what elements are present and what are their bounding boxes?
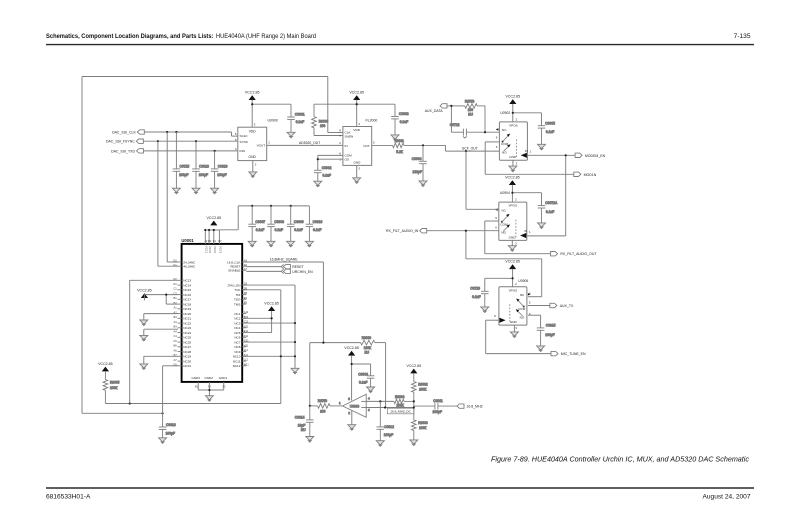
wire U0900 VDD supply	[251, 100, 291, 127]
svg-text:B3: B3	[174, 315, 178, 319]
svg-text:VCC2.85: VCC2.85	[349, 90, 364, 94]
port AUX_TX	[550, 303, 557, 307]
svg-text:2: 2	[348, 411, 350, 415]
wire U0906 COM to AUX_TX	[528, 305, 550, 307]
capacitor C0911 (series)	[414, 399, 457, 414]
wire U0001 NC24 to ground	[144, 329, 178, 335]
svg-text:U0903: U0903	[350, 404, 360, 408]
svg-text:B1: B1	[174, 296, 178, 300]
svg-text:1: 1	[529, 230, 531, 234]
power VCC2.85 for U0903	[344, 346, 359, 356]
ground for C0910	[305, 241, 313, 247]
svg-text:46_MHZ: 46_MHZ	[183, 265, 195, 269]
ground for C0729	[481, 307, 489, 313]
U0001 right pin stubs	[242, 262, 246, 366]
svg-text:1: 1	[339, 401, 341, 405]
svg-text:NC: NC	[501, 208, 506, 212]
svg-text:3: 3	[515, 242, 517, 246]
svg-text:TCK: TCK	[234, 288, 240, 292]
svg-text:NC: NC	[502, 128, 507, 132]
svg-text:U0900: U0900	[268, 118, 278, 122]
ground for FL2000	[353, 178, 361, 184]
wire U0001 VCC pins	[204, 229, 219, 244]
svg-text:100K: 100K	[419, 426, 427, 430]
wire SCF_OUT	[446, 145, 500, 152]
capacitor C0914 (NU)	[295, 406, 314, 437]
capacitor C0915	[537, 323, 556, 346]
svg-text:R0759: R0759	[318, 399, 328, 403]
svg-text:A7: A7	[174, 358, 178, 362]
svg-text:R0903: R0903	[418, 421, 428, 425]
svg-text:NC3: NC3	[234, 321, 240, 325]
wire U0906 ground pin	[513, 325, 515, 332]
svg-text:GND: GND	[249, 155, 257, 159]
svg-text:5: 5	[235, 132, 237, 136]
svg-text:16.8_MHZ: 16.8_MHZ	[466, 405, 483, 409]
svg-text:NC4: NC4	[234, 326, 240, 330]
junction R0759 input	[309, 405, 311, 407]
svg-text:GND: GND	[510, 320, 518, 324]
svg-text:3: 3	[516, 161, 518, 165]
wire U0902 ground pin	[512, 160, 514, 166]
svg-text:C0972A: C0972A	[545, 201, 558, 205]
ground at U0001 NC20	[140, 320, 148, 326]
svg-text:NC22: NC22	[183, 321, 191, 325]
svg-text:AUX_DATA: AUX_DATA	[425, 109, 444, 113]
svg-text:Schematics, Component Location: Schematics, Component Location Diagrams,…	[46, 33, 316, 40]
svg-text:VPOS: VPOS	[509, 288, 518, 292]
svg-text:4: 4	[368, 397, 370, 401]
svg-text:0.1uF: 0.1uF	[400, 120, 408, 124]
svg-text:VDD: VDD	[249, 130, 257, 134]
wire R0905 rail	[105, 402, 280, 404]
svg-text:NC2: NC2	[234, 317, 240, 321]
svg-text:D8: D8	[244, 291, 248, 295]
wire MODEM_EN	[527, 154, 575, 236]
svg-text:C0909: C0909	[294, 220, 304, 224]
capacitor C0972A	[538, 201, 558, 223]
svg-text:C0905: C0905	[545, 121, 555, 125]
svg-text:C0904: C0904	[412, 157, 422, 161]
resistor R0758 (NU)	[465, 99, 485, 132]
svg-text:NC28: NC28	[183, 350, 191, 354]
ground for C0901	[287, 132, 295, 138]
svg-text:G2: G2	[173, 259, 177, 263]
op-amp U0903	[339, 394, 370, 417]
U0001 VCC pin names (rotated)	[204, 246, 222, 253]
svg-text:100pF: 100pF	[166, 431, 175, 435]
svg-text:0.1uF: 0.1uF	[472, 295, 480, 299]
svg-text:VCC2.85: VCC2.85	[506, 94, 521, 98]
wire U0904 ground pin	[511, 240, 513, 245]
svg-text:0.1uF: 0.1uF	[256, 228, 264, 232]
svg-text:VPOS: VPOS	[508, 204, 517, 208]
svg-text:U0906: U0906	[518, 279, 528, 283]
svg-text:NC12: NC12	[233, 364, 241, 368]
svg-text:C4: C4	[173, 334, 177, 338]
svg-text:C0910: C0910	[313, 220, 323, 224]
svg-text:5: 5	[348, 397, 350, 401]
ground for U0902	[509, 166, 517, 172]
header rule	[46, 44, 754, 46]
svg-text:C1: C1	[173, 287, 177, 291]
filter FL2000 box	[343, 127, 372, 166]
svg-text:NO: NO	[501, 231, 506, 235]
ground for C0902	[314, 181, 322, 187]
wire AUX_DATA node	[447, 105, 465, 132]
svg-text:A1: A1	[174, 306, 178, 310]
U0001 left pin designators	[173, 259, 177, 367]
wire VCC to U0001 NC2/NC5	[242, 311, 273, 333]
svg-text:C0903: C0903	[399, 112, 409, 116]
svg-text:100K: 100K	[419, 387, 427, 391]
capacitor C0903	[391, 112, 409, 135]
wire U0001 NC30 to ground	[144, 356, 178, 364]
port AUX_DATA	[440, 104, 447, 108]
power VCC2.85 for U0001 top	[207, 216, 222, 226]
capacitor C0910	[306, 206, 323, 241]
wire DAC_SSI_FSYNC	[143, 140, 238, 142]
wire 16.8MHz clock loop (border)	[82, 77, 343, 415]
svg-text:August 24, 2007: August 24, 2007	[702, 494, 750, 501]
ground for C0912	[376, 441, 384, 447]
svg-text:GND: GND	[509, 155, 517, 159]
resistor R0906	[312, 104, 343, 135]
svg-text:GND2: GND2	[205, 376, 214, 380]
svg-text:5: 5	[529, 301, 531, 305]
svg-text:NC18: NC18	[183, 302, 191, 306]
svg-text:A4: A4	[174, 329, 178, 333]
svg-text:100pF: 100pF	[179, 173, 188, 177]
wire URCHIN_EN	[246, 270, 281, 272]
svg-text:JTAG_EN: JTAG_EN	[227, 283, 240, 287]
power VCC2.85 right of U0001	[264, 301, 279, 311]
svg-text:1: 1	[268, 141, 270, 145]
port DAC_SSI_CLK	[137, 130, 144, 134]
wire FL2000 VDD rail	[314, 100, 395, 127]
svg-text:NC: NC	[520, 293, 525, 297]
svg-text:2: 2	[515, 198, 517, 202]
svg-text:SYNC: SYNC	[240, 140, 249, 144]
svg-text:NC6: NC6	[234, 336, 240, 340]
IC U0001 box	[182, 244, 243, 382]
wire NC13 pulldown	[130, 280, 178, 403]
svg-text:C0918: C0918	[199, 164, 209, 168]
capacitor C0904	[412, 145, 427, 181]
svg-text:2: 2	[339, 141, 341, 145]
svg-text:B6: B6	[174, 344, 178, 348]
svg-text:2: 2	[255, 163, 257, 167]
port URCHIN_EN	[283, 269, 290, 273]
svg-text:C5: C5	[173, 339, 177, 343]
wire RX_FILT_AUDIO_IN	[427, 230, 542, 297]
svg-text:VCC2.85: VCC2.85	[344, 346, 359, 350]
U0001 bottom GND pin labels	[192, 376, 228, 388]
svg-text:A6: A6	[174, 348, 178, 352]
svg-text:Figure 7-89. HUE4040A Controll: Figure 7-89. HUE4040A Controller Urchin …	[491, 455, 749, 464]
capacitor C0902	[314, 166, 332, 181]
svg-text:5: 5	[373, 141, 375, 145]
analog switch U0906	[499, 287, 527, 325]
wire U0001 NC20 to ground	[144, 314, 178, 320]
svg-text:RESET: RESET	[292, 265, 305, 269]
svg-text:C0913: C0913	[166, 423, 176, 427]
svg-text:NC21: NC21	[183, 317, 191, 321]
svg-text:M11: M11	[244, 362, 250, 366]
capacitor C0729	[470, 287, 488, 307]
svg-text:NC16: NC16	[183, 293, 191, 297]
svg-text:DAC_SSI_TXD: DAC_SSI_TXD	[111, 149, 135, 153]
capacitor C0919	[211, 151, 228, 188]
U0001 right pin labels	[227, 260, 241, 368]
svg-text:IN: IN	[525, 149, 528, 153]
ground for JTAG bus	[291, 368, 299, 374]
svg-text:0.1uF: 0.1uF	[296, 120, 304, 124]
svg-text:NC13: NC13	[183, 279, 191, 283]
svg-text:16.8MHZ_SQARE: 16.8MHZ_SQARE	[270, 258, 298, 262]
svg-text:A3: A3	[174, 320, 178, 324]
wire AD5320_OUT	[267, 144, 343, 146]
svg-text:C0906: C0906	[358, 372, 368, 376]
junction at R0901 output	[422, 144, 424, 146]
svg-text:C0729: C0729	[470, 287, 480, 291]
wire DAC_SSI_TXD	[144, 150, 238, 152]
resistor R0759	[310, 399, 343, 414]
svg-text:100: 100	[320, 410, 326, 414]
svg-text:SHDN: SHDN	[345, 134, 354, 138]
ground for U0903	[348, 425, 356, 431]
svg-text:0.1uF: 0.1uF	[546, 210, 554, 214]
svg-text:1: 1	[530, 150, 532, 154]
wire 16.8_CLK to op-amp	[242, 262, 323, 343]
U0001 top pin designators	[205, 239, 223, 243]
wire U0902 COM to MOD1N	[485, 142, 574, 174]
analog switch U0902	[499, 122, 527, 160]
svg-text:SCLK: SCLK	[240, 134, 249, 138]
svg-text:VCC2.85: VCC2.85	[137, 288, 152, 292]
svg-text:C0722: C0722	[450, 123, 460, 127]
wire U0904 VPOS supply	[511, 185, 541, 206]
wire U0902 VPOS supply	[512, 104, 542, 126]
wire 16.8_MHZ_DC	[366, 406, 414, 408]
wire SCF_OUT to U0904 NC	[466, 151, 499, 209]
wire U0906 VPOS supply	[485, 269, 514, 291]
ground for C0715	[172, 188, 180, 194]
resistor R0908 (NU)	[361, 336, 375, 354]
svg-text:C0911: C0911	[433, 399, 443, 403]
net label 16.8_MHZ_DC box	[387, 408, 414, 414]
svg-text:6816533H01-A: 6816533H01-A	[46, 494, 91, 501]
capacitor C0909	[287, 206, 304, 241]
svg-text:J11: J11	[244, 348, 249, 352]
svg-text:NC14: NC14	[183, 283, 191, 287]
svg-text:B4: B4	[174, 325, 178, 329]
svg-text:VCC1: VCC1	[204, 246, 208, 253]
power VCC2.85 for U0900	[245, 90, 260, 100]
resistor R0905	[103, 371, 120, 403]
power VCC2.85 left of U0001	[137, 288, 152, 298]
svg-text:VCC2.85: VCC2.85	[407, 364, 422, 368]
svg-text:OS: OS	[345, 158, 349, 162]
svg-text:C0715: C0715	[180, 164, 190, 168]
ground for C0907	[248, 241, 256, 247]
port RX_FILT_AUDIO_OUT	[551, 252, 558, 256]
svg-text:NC23: NC23	[183, 326, 191, 330]
svg-text:VOUT: VOUT	[257, 144, 266, 148]
port MIC_TUNE_EN	[551, 351, 558, 355]
ground for C0919	[211, 188, 219, 194]
svg-text:C0915: C0915	[546, 323, 556, 327]
svg-text:U0904: U0904	[500, 191, 510, 195]
port DAC_SSI_FSYNC	[136, 139, 143, 143]
svg-text:RX_FILT_AUDIO_OUT: RX_FILT_AUDIO_OUT	[560, 252, 597, 256]
ground for C0905	[538, 144, 546, 150]
svg-text:R0904: R0904	[395, 395, 405, 399]
svg-text:B2: B2	[218, 239, 222, 243]
power VCC2.85 for U0902	[506, 94, 521, 104]
capacitor C0907	[248, 206, 265, 241]
resistor R0904	[394, 395, 414, 407]
svg-text:C0901: C0901	[295, 113, 305, 117]
svg-text:NC26: NC26	[183, 340, 191, 344]
svg-text:9: 9	[494, 314, 496, 318]
wire U0903 supply	[351, 355, 371, 400]
svg-text:NC31: NC31	[183, 364, 191, 368]
power VCC2.85 for R0905	[98, 362, 113, 372]
wire U0903 output	[366, 400, 394, 402]
analog switch U0904	[499, 202, 527, 240]
junction C0722/R0758	[484, 131, 486, 133]
wire U0906 IN to MIC_TUNE_EN	[486, 320, 551, 353]
svg-text:MOD1N: MOD1N	[584, 173, 597, 177]
svg-text:NC7: NC7	[234, 340, 240, 344]
svg-text:GND1: GND1	[219, 376, 228, 380]
ground for C0904	[419, 181, 427, 187]
svg-text:2: 2	[516, 117, 518, 121]
svg-text:DAC_SSI_CLK: DAC_SSI_CLK	[112, 130, 136, 134]
capacitor C0908	[267, 206, 284, 241]
capacitor C0906	[358, 372, 374, 387]
svg-text:D11: D11	[244, 324, 249, 328]
svg-text:8: 8	[339, 129, 341, 133]
svg-text:RX_FILT_AUDIO_IN: RX_FILT_AUDIO_IN	[386, 229, 419, 233]
svg-text:R0758: R0758	[465, 99, 475, 103]
ground for U0904	[508, 246, 516, 252]
svg-text:C7: C7	[244, 267, 248, 271]
svg-text:100K: 100K	[364, 346, 372, 350]
U0001 left pin stubs	[178, 262, 182, 366]
wire RESET	[246, 266, 281, 268]
svg-text:NC10: NC10	[233, 355, 241, 359]
svg-text:NU: NU	[365, 351, 370, 355]
power VCC2.85 for R0902	[407, 364, 422, 374]
svg-text:R0901: R0901	[395, 139, 405, 143]
svg-text:E8: E8	[244, 301, 248, 305]
svg-text:DIN: DIN	[240, 149, 245, 153]
svg-text:9: 9	[495, 216, 497, 220]
capacitor C0715	[173, 132, 190, 188]
svg-text:NC8: NC8	[234, 345, 240, 349]
svg-text:U0902: U0902	[500, 111, 510, 115]
svg-text:R0906: R0906	[319, 119, 329, 123]
svg-text:0.1uF: 0.1uF	[323, 173, 331, 177]
svg-text:D2: D2	[208, 239, 212, 243]
wire FL2000 ground pin	[356, 165, 358, 177]
svg-text:E9: E9	[244, 296, 248, 300]
svg-text:3: 3	[515, 326, 517, 330]
capacitor C0918	[192, 141, 209, 188]
svg-text:OUT: OUT	[363, 144, 370, 148]
resistor R0901	[372, 139, 446, 154]
svg-text:NC25: NC25	[183, 336, 191, 340]
svg-text:100pF: 100pF	[545, 333, 554, 337]
wire JTAG bus to ground	[242, 285, 296, 368]
power VCC2.85 for U0904	[505, 175, 520, 185]
U0900 labels	[235, 118, 278, 166]
svg-text:A11: A11	[244, 310, 249, 314]
capacitor C0912	[377, 401, 395, 440]
svg-text:NO: NO	[502, 151, 507, 155]
svg-text:VCC2.85: VCC2.85	[505, 260, 520, 264]
power VCC2.85 for FL2000	[349, 90, 364, 100]
svg-text:NC19: NC19	[183, 307, 191, 311]
svg-text:18pF: 18pF	[298, 424, 306, 428]
svg-text:L11: L11	[244, 358, 249, 362]
svg-text:0.1uF: 0.1uF	[359, 381, 367, 385]
svg-text:AD5320_OUT: AD5320_OUT	[299, 141, 320, 145]
svg-text:NC24: NC24	[183, 331, 191, 335]
capacitor C0722 (series)	[450, 123, 500, 138]
ground at U0001 NC24	[140, 335, 148, 341]
svg-text:VDD: VDD	[353, 128, 360, 132]
U0001 right pin designators	[244, 259, 250, 367]
svg-text:C0919: C0919	[218, 164, 228, 168]
footer rule	[46, 487, 754, 489]
svg-text:100K: 100K	[396, 403, 404, 407]
ground for C0913	[159, 438, 167, 444]
svg-text:6: 6	[496, 145, 498, 149]
ground for U0906	[510, 332, 518, 338]
capacitor C0913	[159, 421, 176, 438]
svg-text:0.1uF: 0.1uF	[294, 228, 302, 232]
svg-text:NC11: NC11	[233, 359, 241, 363]
svg-text:2: 2	[515, 282, 517, 286]
svg-text:NC30: NC30	[183, 359, 191, 363]
svg-text:6: 6	[368, 408, 370, 412]
port MOD1N	[574, 172, 581, 176]
svg-text:NC9: NC9	[234, 350, 240, 354]
svg-text:100: 100	[320, 124, 326, 128]
ground for C0908	[267, 241, 275, 247]
svg-text:VCC2.85: VCC2.85	[98, 362, 113, 366]
svg-text:C0908: C0908	[274, 220, 284, 224]
svg-text:0.1uF: 0.1uF	[546, 130, 554, 134]
svg-text:VCC2.85: VCC2.85	[207, 216, 222, 220]
wire U0903 negative supply pin	[351, 411, 353, 425]
FL2000 labels	[339, 119, 377, 171]
ground for C0906	[367, 387, 375, 393]
svg-text:SCF_OUT: SCF_OUT	[462, 146, 478, 150]
svg-text:C0914: C0914	[295, 415, 305, 419]
svg-text:URCHIN_EN: URCHIN_EN	[292, 270, 313, 274]
wire DAC_SSI_FSYNC to U0001 46_MHZ	[158, 141, 178, 266]
svg-text:DAC_SSI_FSYNC: DAC_SSI_FSYNC	[106, 140, 135, 144]
ground for C0914	[306, 437, 314, 443]
svg-text:TMS: TMS	[234, 302, 240, 306]
svg-text:3: 3	[254, 123, 256, 127]
port RESET	[283, 264, 290, 268]
svg-text:GND3: GND3	[192, 376, 201, 380]
